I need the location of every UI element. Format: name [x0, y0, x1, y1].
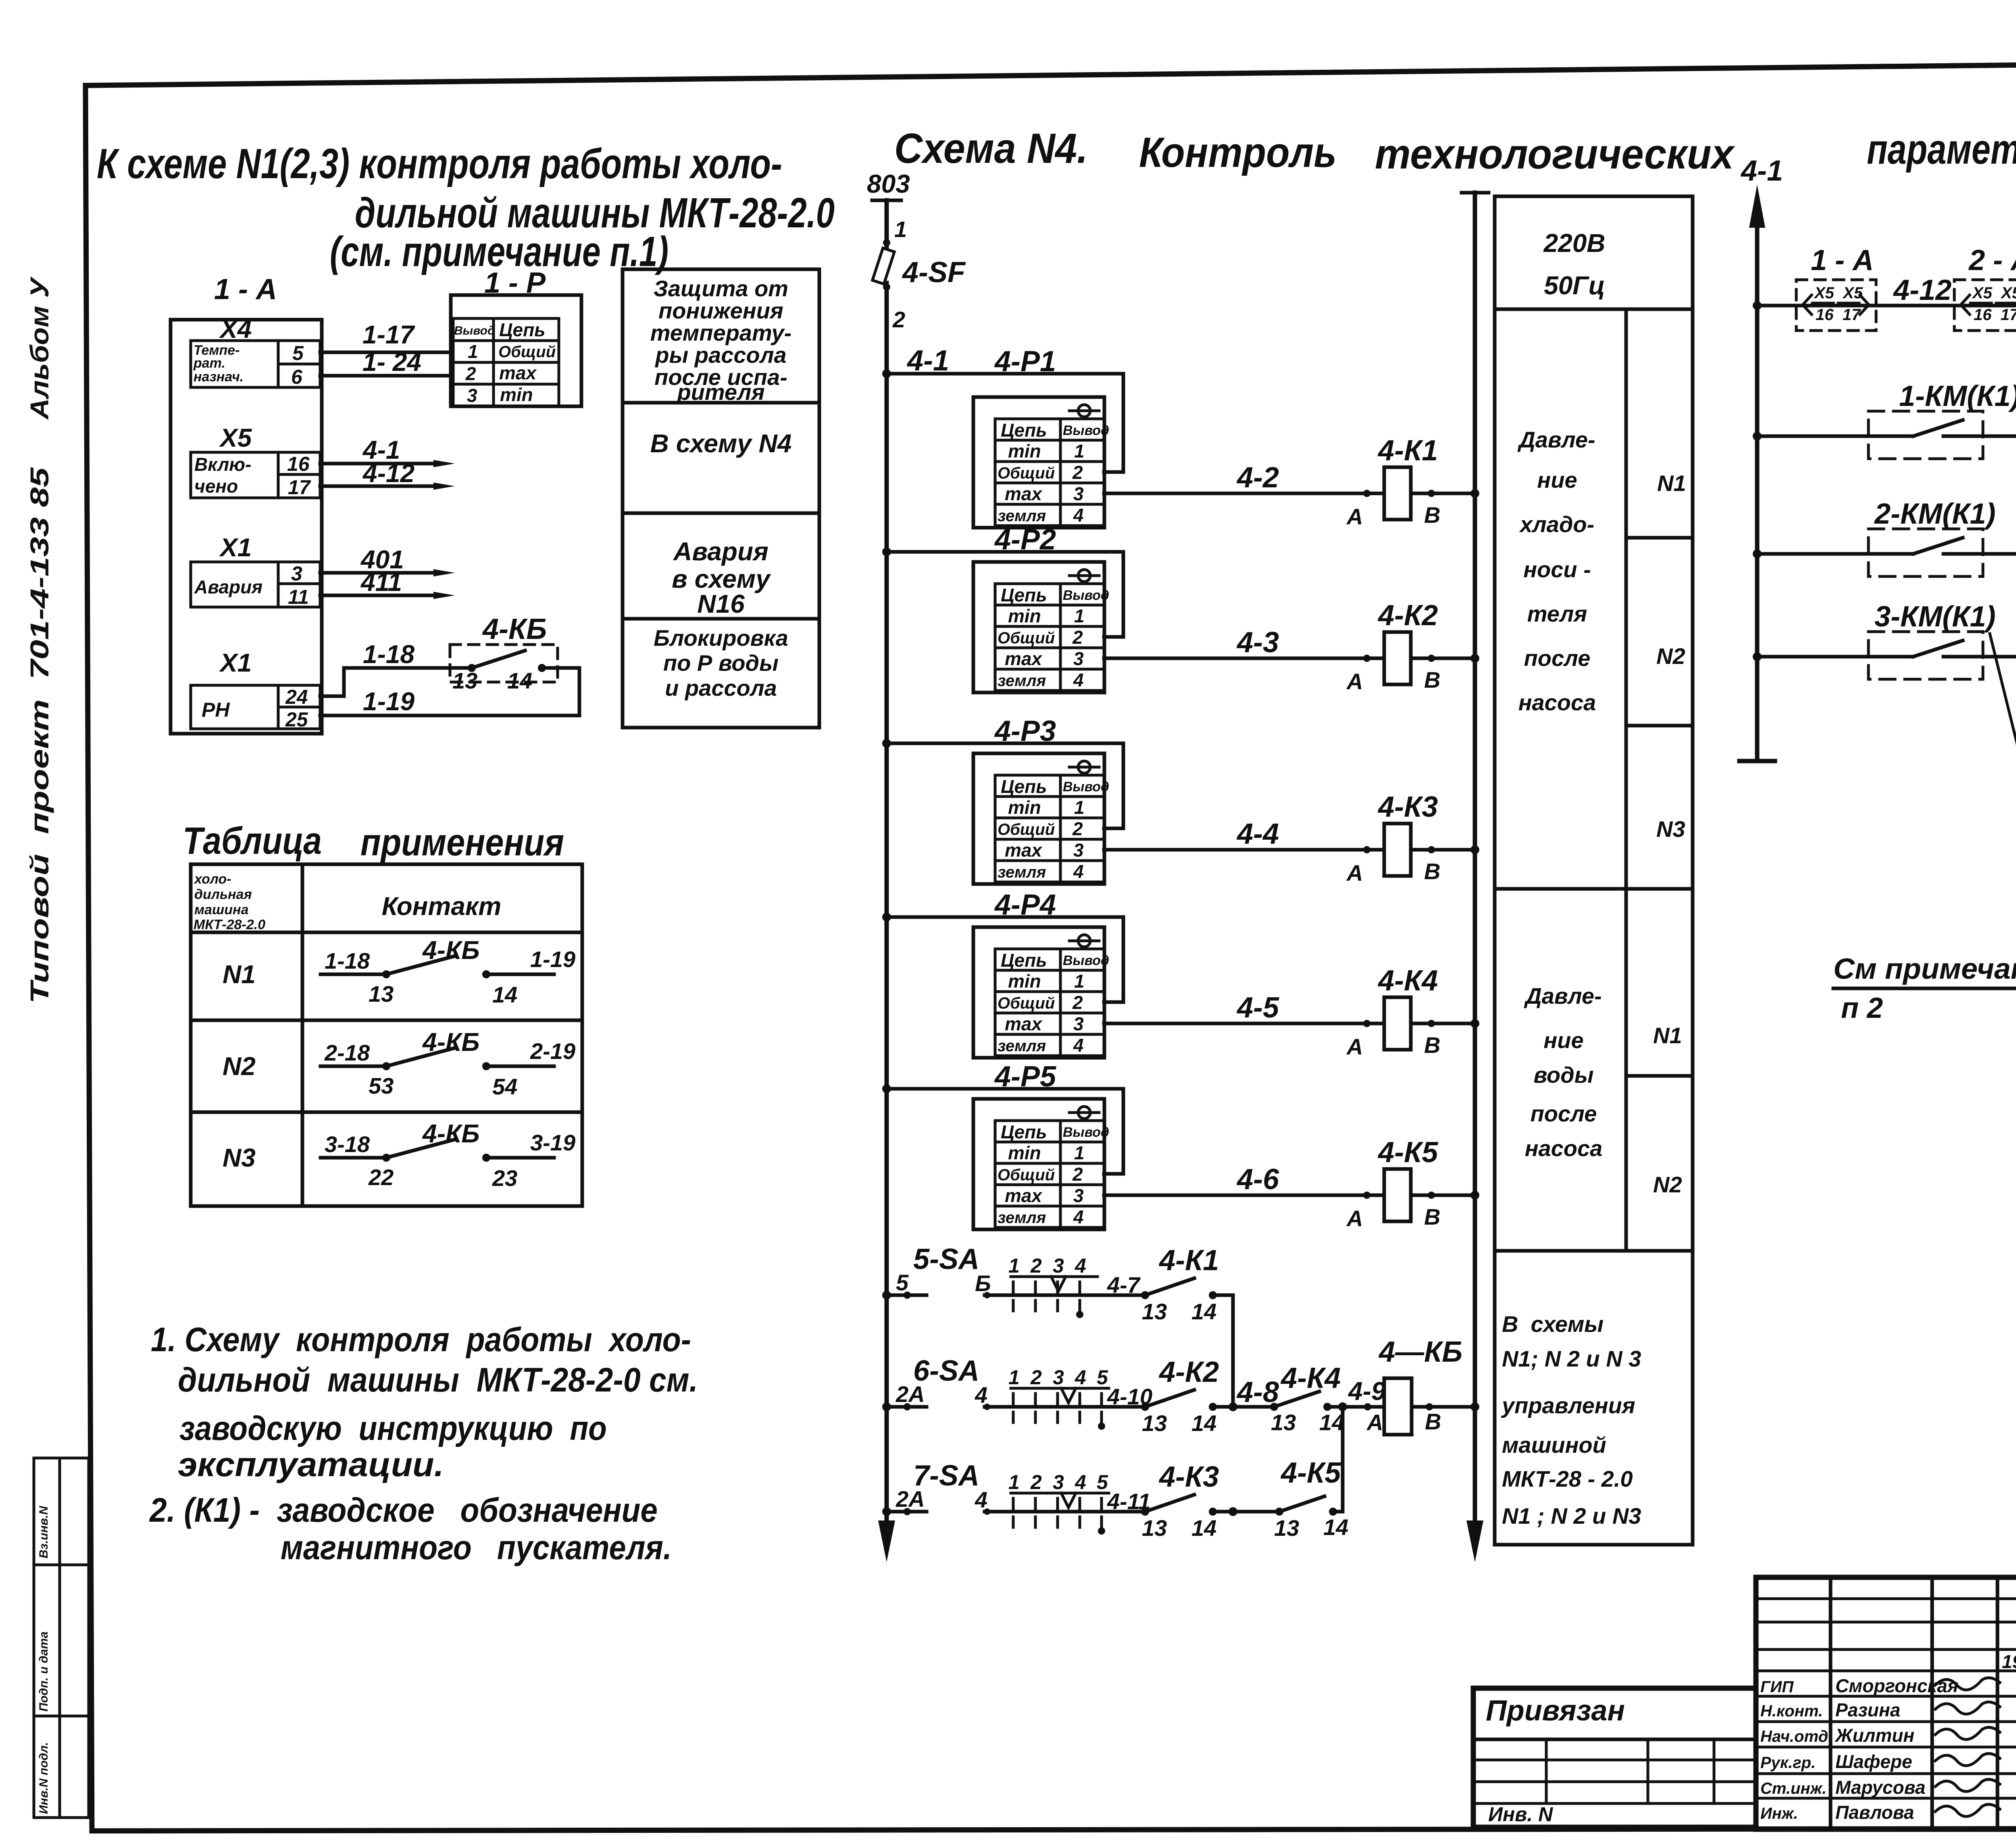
svg-text:4-Р2: 4-Р2	[994, 524, 1056, 556]
svg-text:Таблица: Таблица	[183, 820, 322, 862]
svg-text:Инв. N: Инв. N	[1488, 1803, 1553, 1826]
svg-text:N2: N2	[1653, 1172, 1682, 1197]
alarm connector 1 - А	[1796, 244, 1876, 331]
svg-text:16: 16	[287, 453, 310, 475]
svg-text:насоса: насоса	[1525, 1136, 1603, 1161]
bus 4-1 (right section)	[1739, 155, 1783, 761]
svg-text:6-SА: 6-SА	[913, 1355, 979, 1387]
svg-text:X5 X5: X5 X5	[1814, 284, 1863, 302]
svg-text:Схема N4.: Схема N4.	[894, 125, 1088, 172]
selector switch 5-SА row	[882, 1243, 1219, 1324]
svg-text:заводскую инструкцию по: заводскую инструкцию по	[179, 1409, 607, 1447]
svg-text:4-12: 4-12	[362, 459, 414, 488]
svg-text:МКТ-28-2.0: МКТ-28-2.0	[194, 917, 265, 932]
svg-text:7-SА: 7-SА	[913, 1460, 979, 1492]
svg-text:по Р воды: по Р воды	[663, 650, 779, 676]
svg-text:4-2: 4-2	[1236, 462, 1279, 494]
svg-text:Б: Б	[975, 1271, 991, 1296]
wire from 7-SA 14 to 4-К5	[1213, 1507, 1279, 1516]
svg-text:4-12: 4-12	[1893, 274, 1951, 306]
connector X1 (РН)	[191, 648, 320, 731]
svg-text:4-6: 4-6	[1236, 1163, 1279, 1196]
svg-text:N2: N2	[223, 1052, 256, 1081]
svg-text:рат.: рат.	[193, 356, 225, 371]
svg-text:воды: воды	[1533, 1062, 1593, 1088]
svg-text:Шафере: Шафере	[1835, 1751, 1912, 1772]
application table title	[183, 820, 564, 864]
svg-text:X5 X5: X5 X5	[1972, 284, 2016, 302]
svg-text:Контакт: Контакт	[382, 892, 502, 921]
svg-text:max: max	[499, 362, 537, 383]
svg-text:РН: РН	[202, 699, 230, 721]
svg-text:5-SА: 5-SА	[913, 1243, 979, 1275]
selector switch 7-SА row	[882, 1460, 1219, 1541]
svg-text:1-17: 1-17	[362, 320, 416, 349]
svg-text:насоса: насоса	[1518, 690, 1596, 715]
table row N1 contact	[223, 936, 575, 1007]
attachment box Привязан	[1473, 1688, 1756, 1827]
svg-text:1- 24: 1- 24	[362, 347, 421, 376]
svg-text:МКТ-28 - 2.0: МКТ-28 - 2.0	[1502, 1466, 1633, 1491]
svg-text:Давле-: Давле-	[1517, 427, 1595, 452]
svg-text:53: 53	[369, 1073, 394, 1098]
svg-text:220В: 220В	[1543, 229, 1606, 258]
svg-text:N1: N1	[1657, 470, 1686, 496]
svg-text:14: 14	[1323, 1514, 1348, 1540]
svg-text:14: 14	[492, 982, 517, 1007]
svg-text:4-5: 4-5	[1236, 992, 1279, 1024]
svg-text:22: 22	[368, 1165, 394, 1190]
contactor aux contact 1-КМ(К1)	[1753, 380, 2016, 459]
svg-text:N1 ; N 2 и N3: N1 ; N 2 и N3	[1502, 1503, 1641, 1529]
svg-text:В: В	[1425, 1409, 1441, 1434]
svg-text:холо-: холо-	[194, 872, 231, 887]
svg-text:4—КБ: 4—КБ	[1378, 1336, 1462, 1368]
svg-text:1-19: 1-19	[530, 946, 575, 972]
svg-text:5: 5	[1097, 1366, 1108, 1389]
svg-text:1-18: 1-18	[325, 948, 370, 973]
svg-text:N3: N3	[223, 1143, 256, 1172]
note reference См примечание п 2	[1833, 953, 2016, 1024]
svg-text:N2: N2	[1656, 643, 1685, 669]
title block stamp grid	[1756, 1577, 2016, 1829]
connector X4 (Температ. назнач.)	[191, 314, 320, 388]
svg-text:X1: X1	[219, 533, 252, 562]
svg-text:1: 1	[1008, 1254, 1020, 1277]
wire 1-24	[320, 347, 452, 376]
svg-text:4-Р3: 4-Р3	[994, 715, 1056, 747]
svg-text:2-18: 2-18	[324, 1040, 370, 1065]
wire label 4-1 on bus	[906, 345, 949, 377]
svg-text:2-КМ(К1): 2-КМ(К1)	[1874, 498, 1996, 530]
svg-text:машиной: машиной	[1502, 1432, 1606, 1458]
svg-text:4-КБ: 4-КБ	[422, 936, 480, 965]
svg-text:4-Р4: 4-Р4	[994, 889, 1056, 921]
svg-text:Ст.инж.: Ст.инж.	[1760, 1780, 1826, 1797]
svg-text:эксплуатации.: эксплуатации.	[178, 1446, 444, 1483]
svg-text:6: 6	[291, 366, 303, 388]
svg-text:теля: теля	[1527, 601, 1587, 626]
svg-text:применения: применения	[360, 821, 564, 864]
svg-text:рителя: рителя	[676, 379, 764, 405]
connector X1 (Авария)	[191, 533, 320, 608]
svg-text:Защита от: Защита от	[654, 276, 788, 301]
svg-text:Контроль: Контроль	[1139, 129, 1337, 176]
svg-text:14: 14	[1319, 1410, 1344, 1435]
svg-text:14: 14	[1191, 1515, 1216, 1541]
svg-text:ние: ние	[1543, 1027, 1583, 1053]
contactor aux contact 2-КМ(К1)	[1753, 498, 2016, 576]
svg-text:2: 2	[1030, 1254, 1042, 1277]
pressure sensor block 4-Р4	[882, 889, 1479, 1059]
svg-text:2-19: 2-19	[530, 1038, 575, 1064]
svg-text:2. (К1) - заводское обознач: 2. (К1) - заводское обозначение	[149, 1491, 658, 1529]
svg-text:23: 23	[492, 1165, 517, 1191]
svg-text:13: 13	[1271, 1410, 1296, 1435]
svg-text:понижения: понижения	[658, 298, 783, 323]
svg-text:13: 13	[1274, 1515, 1299, 1541]
svg-text:В схемы: В схемы	[1502, 1311, 1604, 1337]
svg-text:14: 14	[1191, 1299, 1216, 1324]
svg-text:4-7: 4-7	[1107, 1272, 1141, 1298]
svg-text:24: 24	[285, 686, 308, 708]
svg-text:ры рассола: ры рассола	[654, 342, 786, 368]
svg-text:Авария: Авария	[194, 576, 262, 597]
wire 4-8 on 6-SA row	[1213, 1376, 1279, 1411]
svg-text:4-КБ: 4-КБ	[482, 613, 547, 645]
svg-text:4-КБ: 4-КБ	[422, 1027, 480, 1057]
svg-text:4: 4	[1075, 1471, 1086, 1493]
svg-text:50Гц: 50Гц	[1544, 271, 1605, 300]
pressure sensor block 4-Р1	[882, 345, 1479, 529]
svg-text:3-19: 3-19	[530, 1130, 575, 1155]
svg-text:Типовой проект 701-4-133 85: Типовой проект 701-4-133 85	[25, 467, 54, 1004]
svg-text:Привязан: Привязан	[1486, 1695, 1625, 1727]
svg-text:носи -: носи -	[1523, 557, 1591, 582]
svg-text:машина: машина	[194, 902, 249, 917]
panel 220В 50Гц column	[1495, 196, 1693, 1545]
table row N2 contact	[223, 1027, 575, 1099]
svg-text:Цепь: Цепь	[499, 319, 546, 340]
svg-text:Подп. и дата: Подп. и дата	[37, 1631, 50, 1712]
svg-text:11: 11	[288, 586, 309, 608]
wire from 5-SA 14 down	[1213, 1295, 1233, 1407]
svg-text:управления: управления	[1501, 1393, 1635, 1418]
svg-text:Общий: Общий	[498, 343, 556, 361]
pressure sensor block 4-Р3	[882, 715, 1479, 886]
svg-text:4-9: 4-9	[1347, 1377, 1386, 1406]
wire 4-12 with arrow	[320, 459, 455, 490]
svg-text:4: 4	[975, 1487, 987, 1512]
svg-text:14: 14	[507, 668, 532, 693]
svg-text:Вклю-: Вклю-	[194, 454, 251, 475]
svg-text:4-3: 4-3	[1236, 626, 1279, 659]
svg-text:Жилтин: Жилтин	[1835, 1725, 1914, 1746]
svg-text:4-Р5: 4-Р5	[994, 1061, 1056, 1093]
svg-text:Нач.отд.: Нач.отд.	[1760, 1728, 1833, 1745]
svg-text:4-SF: 4-SF	[902, 256, 966, 289]
svg-text:5: 5	[1097, 1471, 1108, 1493]
svg-text:4-К1: 4-К1	[1158, 1244, 1219, 1277]
svg-text:Павлова: Павлова	[1835, 1802, 1914, 1823]
svg-text:4-К5: 4-К5	[1377, 1136, 1438, 1169]
svg-text:13: 13	[1142, 1299, 1167, 1324]
svg-text:Разина: Разина	[1835, 1699, 1900, 1720]
svg-text:N1: N1	[223, 960, 256, 989]
svg-text:2: 2	[1030, 1471, 1042, 1493]
svg-text:2 - А: 2 - А	[1968, 244, 2016, 277]
margin text project number (vertical)	[25, 276, 54, 1004]
alarm connector 2 - А	[1954, 244, 2016, 331]
svg-text:4-КБ: 4-КБ	[422, 1119, 480, 1148]
svg-text:3: 3	[291, 562, 302, 585]
svg-text:2: 2	[892, 307, 905, 332]
svg-text:13: 13	[452, 668, 477, 693]
svg-text:1-18: 1-18	[363, 640, 415, 669]
svg-text:Авария: Авария	[673, 537, 768, 566]
left bus of scheme 4	[878, 283, 895, 1562]
svg-text:4-К4: 4-К4	[1377, 965, 1438, 997]
svg-text:чено: чено	[194, 476, 238, 497]
relay device 1-Р terminal table	[451, 267, 581, 406]
svg-text:411: 411	[360, 568, 402, 597]
svg-text:ГИП: ГИП	[1760, 1678, 1794, 1696]
svg-text:4-Р1: 4-Р1	[994, 345, 1056, 378]
svg-text:16 17: 16 17	[1974, 306, 2016, 324]
header note to schemes N1(2,3)	[97, 140, 835, 275]
wire row 1-А..4-К7	[1753, 301, 2016, 310]
note leader line	[1990, 634, 2016, 987]
device block 1-А outline	[171, 273, 322, 734]
svg-text:4: 4	[1075, 1254, 1086, 1277]
wire 411 with arrow	[320, 568, 455, 599]
svg-text:X5: X5	[219, 423, 252, 452]
svg-text:К схеме N1(2,3) контроля работ: К схеме N1(2,3) контроля работы холо-	[97, 140, 782, 187]
svg-text:1: 1	[1008, 1366, 1020, 1389]
svg-text:min: min	[500, 384, 533, 405]
svg-text:п 2: п 2	[1841, 992, 1883, 1024]
svg-text:4: 4	[975, 1382, 987, 1408]
svg-text:хладо-: хладо-	[1519, 512, 1595, 537]
contact 4-К5 (13-14)	[1274, 1457, 1348, 1541]
svg-text:3: 3	[1053, 1471, 1064, 1493]
svg-text:4-4: 4-4	[1236, 818, 1279, 850]
svg-text:1: 1	[468, 341, 478, 362]
svg-text:магнитного пускателя.: магнитного пускателя.	[281, 1529, 672, 1566]
wire 1-19	[320, 668, 579, 716]
svg-text:Сморгонская: Сморгонская	[1835, 1675, 1958, 1696]
contactor aux contact 3-КМ(К1)	[1753, 601, 2016, 679]
svg-text:после: после	[1531, 1101, 1597, 1126]
svg-text:температу-: температу-	[650, 320, 792, 345]
svg-text:14: 14	[1191, 1410, 1216, 1436]
svg-text:3: 3	[1053, 1254, 1064, 1277]
svg-text:17: 17	[288, 476, 311, 499]
info box Защита от понижения	[623, 269, 819, 728]
table row N3 contact	[223, 1119, 575, 1191]
wire 4-9	[1327, 1377, 1386, 1411]
svg-text:1: 1	[894, 216, 907, 242]
wire label 4-12	[1893, 274, 1951, 306]
svg-text:1 - А: 1 - А	[214, 273, 277, 306]
svg-text:N1; N 2 и N 3: N1; N 2 и N 3	[1502, 1346, 1641, 1371]
svg-text:после: после	[1524, 645, 1591, 671]
svg-text:ние: ние	[1537, 467, 1577, 493]
svg-text:4-К1: 4-К1	[1377, 435, 1438, 467]
relay coil 4-КБ	[1364, 1336, 1479, 1435]
svg-text:13: 13	[369, 981, 394, 1007]
wire up to 6-SA row	[1333, 1407, 1343, 1512]
svg-text:Н.конт.: Н.конт.	[1760, 1702, 1823, 1720]
svg-text:1 - А: 1 - А	[1811, 244, 1874, 277]
svg-text:N1: N1	[1653, 1023, 1682, 1048]
margin stamp strip	[34, 1458, 89, 1818]
wire 4-1 with arrow	[320, 435, 455, 467]
svg-text:X1: X1	[219, 648, 252, 677]
svg-text:803: 803	[867, 169, 910, 198]
application table grid	[191, 864, 582, 1206]
svg-text:технологических: технологических	[1375, 131, 1735, 178]
pressure sensor block 4-Р5	[882, 1061, 1479, 1231]
contact 4-К4 (13-14)	[1270, 1362, 1344, 1435]
svg-text:Марусова: Марусова	[1835, 1777, 1925, 1798]
svg-text:1984: 1984	[2002, 1651, 2016, 1672]
svg-text:Рук.гр.: Рук.гр.	[1760, 1754, 1816, 1772]
svg-text:4-К3: 4-К3	[1158, 1461, 1219, 1493]
svg-text:4-1: 4-1	[1740, 155, 1783, 187]
connector X5 (Включено)	[191, 423, 320, 499]
svg-text:Альбом У: Альбом У	[25, 276, 54, 420]
svg-text:Блокировка: Блокировка	[654, 625, 788, 651]
svg-text:4-К5: 4-К5	[1280, 1457, 1341, 1489]
svg-text:2: 2	[1030, 1366, 1042, 1389]
svg-text:54: 54	[492, 1074, 517, 1099]
svg-text:13: 13	[1142, 1410, 1167, 1436]
svg-text:3-КМ(К1): 3-КМ(К1)	[1874, 601, 1996, 633]
node 803 terminal	[867, 169, 910, 200]
svg-text:В схему N4: В схему N4	[650, 429, 792, 458]
svg-text:13: 13	[1142, 1515, 1167, 1541]
svg-text:N16: N16	[697, 589, 745, 618]
right bus of scheme 4	[1462, 193, 1489, 1562]
svg-text:3-18: 3-18	[325, 1131, 370, 1157]
svg-text:X4: X4	[219, 314, 252, 343]
svg-text:Вывод: Вывод	[454, 324, 495, 337]
title block signatures	[1760, 1651, 2016, 1823]
svg-text:16 17: 16 17	[1816, 306, 1861, 324]
notes text	[149, 1321, 698, 1566]
svg-text:1-19: 1-19	[363, 687, 415, 716]
svg-text:назнач.: назнач.	[194, 369, 244, 385]
svg-text:4-1: 4-1	[906, 345, 949, 377]
svg-text:4: 4	[1075, 1366, 1086, 1389]
svg-text:N3: N3	[1656, 816, 1685, 842]
svg-text:4-К3: 4-К3	[1377, 791, 1438, 823]
svg-text:Инв.N подл.: Инв.N подл.	[37, 1742, 50, 1814]
svg-text:4-К2: 4-К2	[1158, 1356, 1219, 1388]
pressure sensor block 4-Р2	[882, 524, 1479, 694]
svg-text:3: 3	[1053, 1366, 1064, 1389]
svg-text:А: А	[1366, 1410, 1383, 1435]
title Схема N4	[894, 125, 2016, 178]
svg-text:5: 5	[896, 1270, 909, 1295]
svg-text:1-КМ(К1): 1-КМ(К1)	[1899, 380, 2016, 412]
svg-text:3: 3	[467, 385, 477, 406]
svg-text:См примечание: См примечание	[1833, 953, 2016, 985]
wire 1-18	[320, 640, 472, 696]
svg-text:дильной машины МКТ-28-2-0 см: дильной машины МКТ-28-2-0 см.	[178, 1361, 698, 1399]
svg-text:1 - Р: 1 - Р	[484, 267, 546, 299]
svg-text:1. Схему контроля работы хо: 1. Схему контроля работы холо-	[151, 1321, 691, 1358]
svg-text:дильная: дильная	[194, 887, 252, 902]
selector switch 6-SА row	[882, 1355, 1219, 1436]
svg-text:и рассола: и рассола	[665, 675, 777, 701]
svg-text:Давле-: Давле-	[1524, 983, 1602, 1009]
svg-text:параметров.: параметров.	[1867, 126, 2016, 173]
svg-text:2: 2	[465, 363, 476, 384]
svg-text:Вз.инв.N: Вз.инв.N	[37, 1506, 50, 1558]
svg-text:25: 25	[285, 708, 308, 731]
svg-text:4-К4: 4-К4	[1280, 1362, 1341, 1394]
svg-text:1: 1	[1008, 1471, 1020, 1493]
circuit breaker 4-SF	[873, 200, 966, 332]
svg-text:Инж.: Инж.	[1760, 1805, 1798, 1822]
wire 1-17	[320, 320, 452, 352]
svg-text:5: 5	[292, 342, 304, 364]
svg-text:4-К2: 4-К2	[1377, 599, 1438, 632]
wire 401 with arrow	[320, 545, 455, 576]
contact 4-КБ (13-14)	[450, 613, 558, 693]
